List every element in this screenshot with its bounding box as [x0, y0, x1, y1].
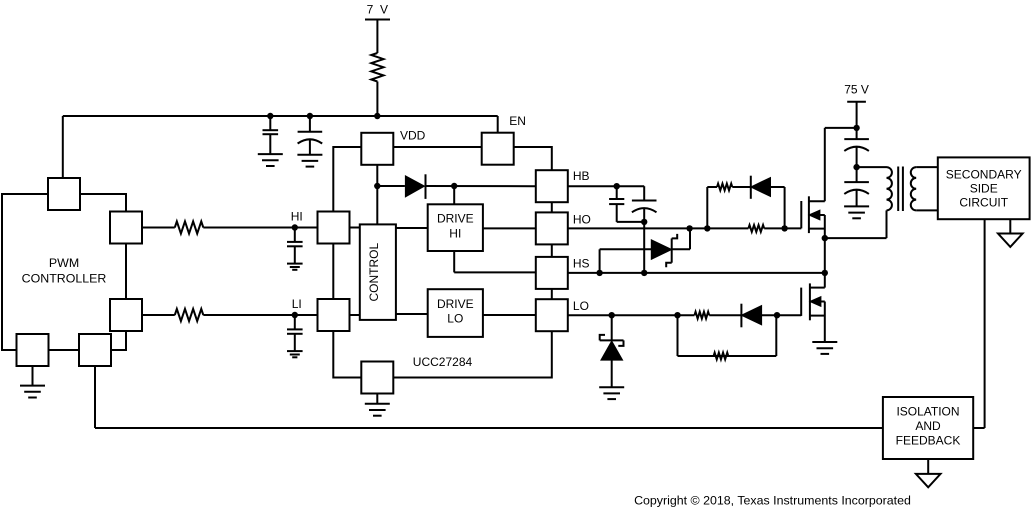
svg-text:DRIVE: DRIVE	[437, 297, 474, 311]
svg-text:UCC27284: UCC27284	[413, 355, 473, 369]
svg-text:HB: HB	[573, 169, 590, 183]
svg-text:LO: LO	[573, 299, 589, 313]
svg-text:75 V: 75 V	[844, 83, 869, 97]
svg-text:Copyright © 2018, Texas Instru: Copyright © 2018, Texas Instruments Inco…	[634, 494, 911, 508]
svg-text:CIRCUIT: CIRCUIT	[959, 195, 1008, 209]
svg-text:DRIVE: DRIVE	[437, 212, 474, 226]
svg-text:PWM: PWM	[49, 256, 79, 270]
svg-text:HO: HO	[573, 213, 591, 227]
svg-text:SECONDARY: SECONDARY	[946, 167, 1022, 181]
svg-text:VDD: VDD	[400, 129, 426, 143]
svg-text:HI: HI	[449, 226, 461, 240]
svg-text:ISOLATION: ISOLATION	[896, 405, 959, 419]
svg-text:FEEDBACK: FEEDBACK	[896, 434, 961, 448]
svg-text:SIDE: SIDE	[970, 181, 998, 195]
svg-text:7 V: 7 V	[367, 3, 388, 17]
svg-text:LI: LI	[292, 297, 302, 311]
svg-text:CONTROLLER: CONTROLLER	[22, 272, 107, 286]
svg-text:CONTROL: CONTROL	[367, 243, 381, 302]
svg-text:HI: HI	[291, 209, 303, 223]
svg-text:EN: EN	[509, 114, 526, 128]
svg-text:LO: LO	[447, 312, 463, 326]
svg-text:HS: HS	[573, 257, 590, 271]
svg-text:AND: AND	[915, 419, 941, 433]
